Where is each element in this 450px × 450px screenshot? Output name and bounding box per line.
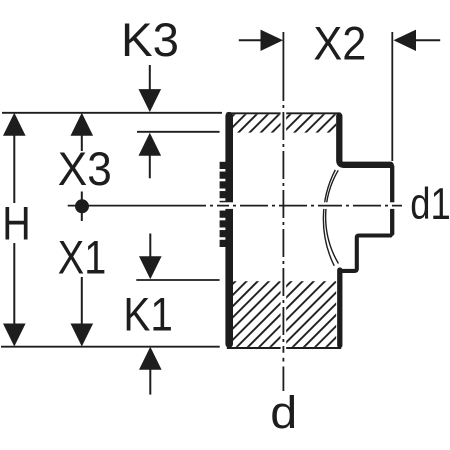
centerline halo vertical top hatch	[281, 112, 287, 134]
vertical centerline tail below body	[282, 358, 284, 362]
svg-text:d1: d1	[410, 180, 450, 229]
hatch band bottom (socket depth)	[233, 281, 336, 347]
left socket wall	[225, 116, 233, 344]
extension line K3 bottom (L2)	[137, 131, 220, 133]
svg-text:H: H	[2, 198, 31, 251]
svg-text:d: d	[270, 387, 297, 438]
horizontal axis centerline	[68, 205, 402, 207]
body right wall lower	[337, 270, 342, 345]
body bottom edge	[227, 347, 341, 349]
branch bottom and reduction step	[340, 236, 391, 271]
dimension K1 tail bottom	[149, 368, 151, 395]
vertical axis centerline	[282, 32, 284, 353]
hatch band top (socket depth)	[233, 114, 336, 132]
extension line bottom (L4)	[1, 346, 220, 348]
arrow K1 up	[139, 347, 162, 370]
arrow H down	[3, 324, 26, 347]
arrow H up	[3, 113, 26, 136]
center point dot	[75, 199, 89, 213]
arrow K1 down	[139, 256, 162, 279]
dimension K1 tail top	[149, 234, 151, 259]
centerline halo through branch arcs	[312, 202, 334, 209]
branch end face	[390, 166, 394, 233]
arrow X1 down	[71, 324, 94, 347]
svg-text:X2: X2	[313, 18, 366, 71]
arrow K3 up	[139, 133, 162, 156]
svg-text:K1: K1	[123, 289, 172, 342]
dimension X3 line	[81, 120, 83, 151]
seal ribs on left socket	[220, 162, 227, 247]
extension line K1 top (L3)	[136, 279, 219, 281]
centerline halo vertical bottom hatch	[281, 280, 287, 350]
dimension X2 right arrow tail	[414, 39, 441, 41]
branch inner arc inner	[326, 170, 339, 263]
body top edge (opening face)	[227, 112, 341, 114]
branch inner arc outer	[323, 170, 335, 266]
dimension X2 left arrow tail	[239, 39, 263, 41]
svg-text:X1: X1	[58, 232, 107, 285]
dimension X1 line	[81, 277, 83, 340]
svg-text:X3: X3	[58, 143, 112, 196]
arrow X2 left	[261, 30, 284, 51]
dimension H line	[13, 120, 15, 203]
X2 extension line right (V2)	[391, 32, 393, 161]
arrow X2 right	[394, 30, 417, 51]
dimension K3 tail top	[149, 65, 151, 92]
centerline halo through left socket bar	[216, 202, 235, 209]
centerline halo through branch end face	[388, 202, 397, 209]
node center tick	[81, 192, 83, 222]
arrow K3 down	[139, 89, 162, 112]
extension line top (L1)	[2, 112, 222, 114]
dimension K3 tail bottom	[149, 154, 151, 178]
arrow X3 up	[71, 113, 94, 136]
body right wall upper and branch top	[339, 116, 390, 165]
svg-text:K3: K3	[121, 14, 179, 67]
